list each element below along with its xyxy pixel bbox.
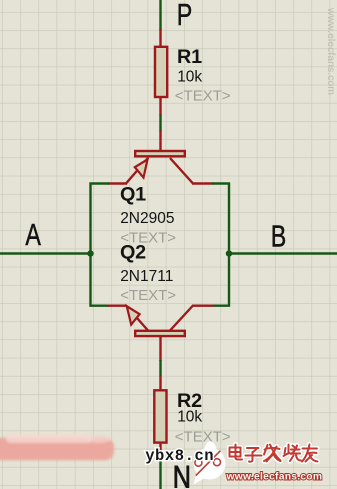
transistor Q1 base bar: [135, 151, 185, 156]
net label A: [25, 217, 41, 252]
watermark pink smudge bottom-left: [0, 434, 114, 460]
svg-text:Q1: Q1: [120, 183, 146, 205]
node N wire (bottom vertical green): [159, 455, 161, 489]
wire A horizontal: [0, 252, 91, 254]
transistor Q2 collector pin horizontal: [192, 305, 213, 307]
char zi: [246, 448, 262, 462]
transistor Q1 emitter line: [126, 158, 148, 184]
char fa: [264, 445, 281, 462]
wire Q2 base to R2: [159, 360, 161, 377]
svg-text:Q2: Q2: [120, 241, 146, 263]
svg-text:<TEXT>: <TEXT>: [175, 428, 231, 445]
watermark vertical right www.elecfans.com: [325, 7, 337, 95]
watermark logo disc: [194, 441, 226, 484]
svg-text:10k: 10k: [177, 409, 202, 426]
wire R1 to Q1 base: [159, 115, 161, 132]
svg-text:R1: R1: [177, 46, 202, 68]
transistor Q1 collector pin horizontal: [192, 182, 213, 184]
transistor Q2 emitter line: [126, 306, 148, 331]
wire B horizontal: [229, 252, 337, 254]
wire bottom-left corner: [91, 254, 110, 306]
char shao: [284, 445, 302, 462]
resistor R1 top pin: [159, 29, 161, 47]
transistor Q2 emitter arrow: [127, 306, 140, 324]
resistor R2 bottom pin: [159, 443, 161, 457]
resistor R2 top pin: [159, 376, 161, 391]
node P wire (top vertical green): [159, 0, 161, 30]
svg-text:www.elecfans.com: www.elecfans.com: [226, 472, 323, 483]
char you: [302, 445, 318, 462]
net label B: [271, 218, 287, 253]
char dian: [236, 445, 243, 460]
svg-text:B: B: [271, 218, 287, 253]
transistor Q1 emitter pin horizontal: [108, 182, 127, 184]
net label P: [177, 0, 193, 32]
wire top-left corner: [91, 184, 110, 254]
transistor Q2 emitter pin horizontal: [108, 305, 127, 307]
svg-text:10k: 10k: [177, 69, 202, 86]
junction dot left: [87, 250, 93, 256]
net label N: [173, 460, 191, 489]
junction dot right: [226, 250, 232, 256]
transistor Q1 base pin: [159, 131, 161, 152]
svg-text:A: A: [25, 217, 41, 252]
resistor R1 bottom pin: [159, 97, 161, 116]
svg-text:www.elecfans.com: www.elecfans.com: [325, 7, 337, 95]
transistor Q1 emitter arrow: [135, 160, 148, 178]
transistor Q2 base pin: [159, 336, 161, 361]
transistor Q2 collector line: [170, 306, 193, 331]
svg-text:<TEXT>: <TEXT>: [175, 87, 231, 104]
wire bottom-right corner: [212, 254, 229, 306]
svg-text:ybx8.cn: ybx8.cn: [145, 447, 214, 465]
svg-text:P: P: [177, 0, 193, 32]
wire top-right corner: [212, 184, 229, 254]
transistor Q2 base bar: [135, 331, 185, 336]
svg-text:<TEXT>: <TEXT>: [120, 287, 176, 304]
transistor Q1 collector line: [170, 158, 193, 184]
svg-text:2N1711: 2N1711: [120, 268, 173, 285]
svg-text:2N2905: 2N2905: [120, 210, 174, 227]
resistor R2 body: [154, 390, 166, 442]
watermark chinese characters 电子发烧友: [230, 445, 318, 462]
resistor R1 body: [155, 47, 167, 97]
